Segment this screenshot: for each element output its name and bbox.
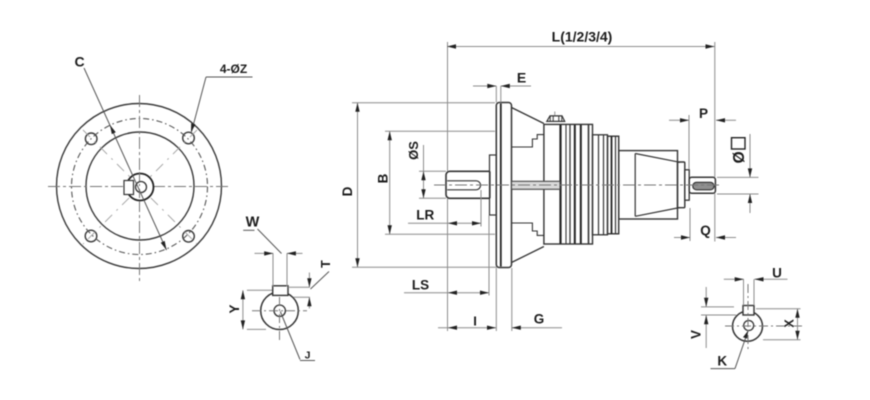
svg-text:G: G <box>534 312 545 327</box>
svg-text:K: K <box>717 354 727 369</box>
svg-text:Q: Q <box>700 223 711 238</box>
svg-text:Ø: Ø <box>731 151 748 163</box>
svg-text:C: C <box>74 54 84 70</box>
svg-text:B: B <box>376 173 391 183</box>
svg-text:E: E <box>517 70 526 86</box>
svg-text:U: U <box>772 266 782 281</box>
svg-text:LR: LR <box>416 208 434 223</box>
svg-text:L(1/2/3/4): L(1/2/3/4) <box>552 29 613 45</box>
svg-text:T: T <box>319 260 333 268</box>
svg-text:ØS: ØS <box>406 141 421 160</box>
svg-text:J: J <box>305 350 311 362</box>
svg-text:W: W <box>246 215 260 231</box>
svg-text:LS: LS <box>412 278 429 293</box>
svg-text:Y: Y <box>227 304 242 313</box>
svg-text:X: X <box>782 319 796 328</box>
svg-text:4-ØZ: 4-ØZ <box>220 62 247 76</box>
svg-text:I: I <box>473 314 477 329</box>
svg-text:V: V <box>688 330 703 339</box>
svg-text:D: D <box>340 186 355 196</box>
svg-text:P: P <box>699 106 708 121</box>
